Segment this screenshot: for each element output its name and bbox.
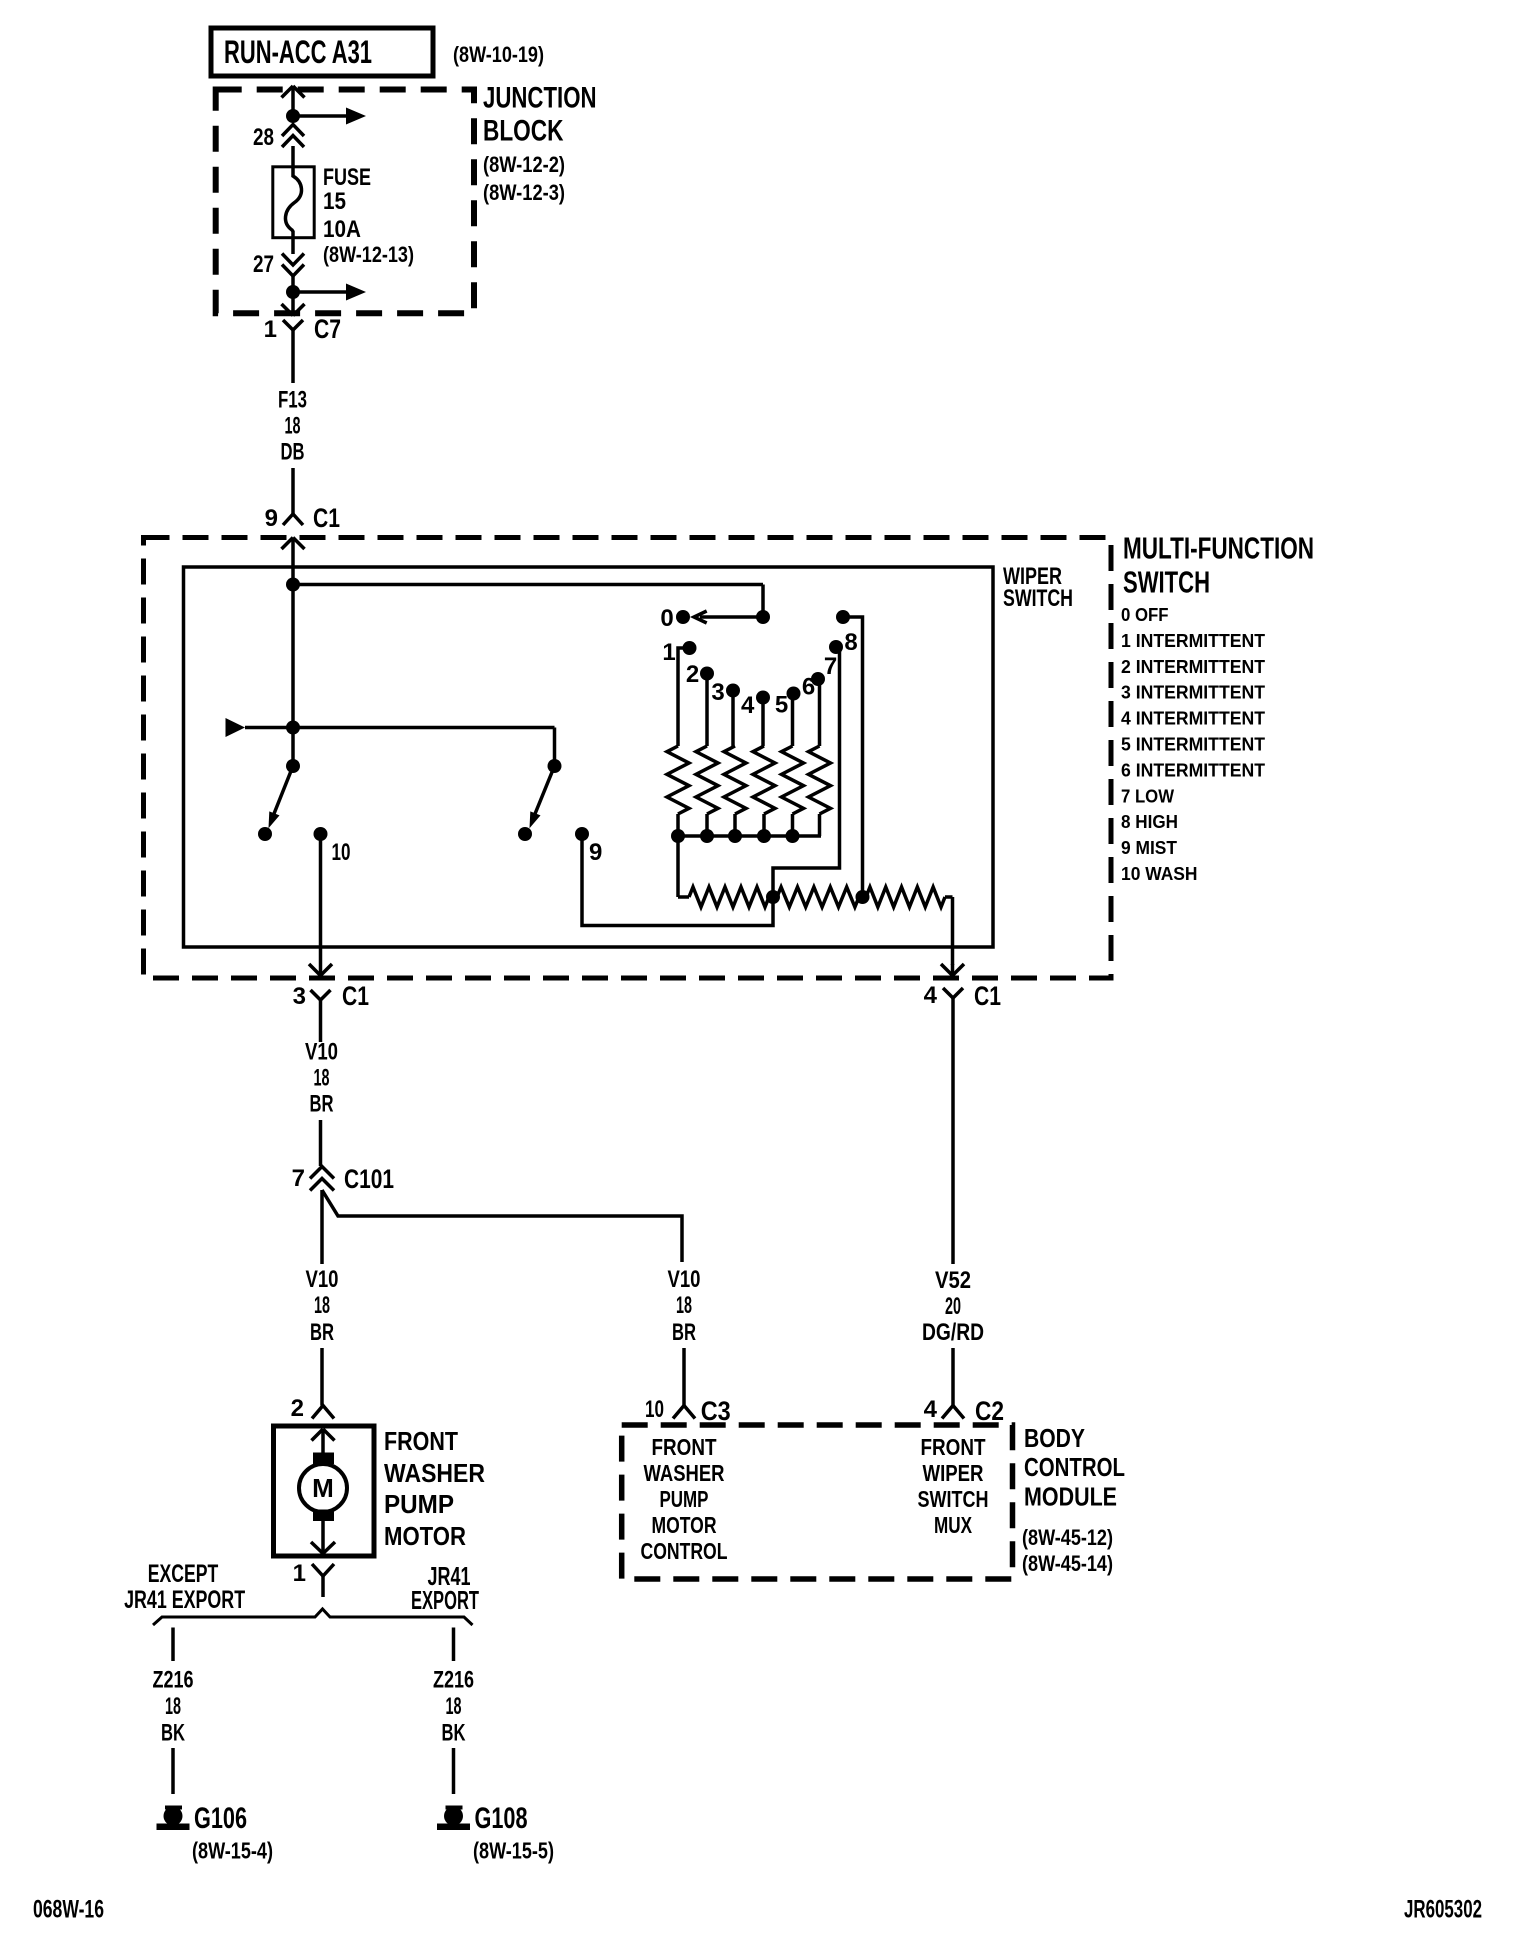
junction block title	[483, 82, 597, 148]
svg-text:(8W-45-14): (8W-45-14)	[1022, 1551, 1113, 1576]
svg-text:10: 10	[332, 839, 351, 866]
contact 8 label	[844, 629, 857, 656]
motor brush top	[313, 1453, 334, 1465]
svg-text:FRONT: FRONT	[384, 1426, 458, 1456]
node dot left wiper pivot	[286, 759, 300, 773]
wire label V52 20 DG/RD	[922, 1267, 984, 1346]
node dot rheostat 1-2	[766, 890, 780, 904]
svg-text:C3: C3	[701, 1396, 731, 1426]
wire contact 1 to resistor 1	[678, 648, 690, 746]
svg-text:G106: G106	[194, 1802, 247, 1835]
node dot wiper feed left	[286, 721, 300, 735]
wire C1-4 down	[951, 1010, 955, 1264]
svg-text:EXCEPT: EXCEPT	[148, 1560, 219, 1588]
svg-text:(8W-15-5): (8W-15-5)	[473, 1838, 554, 1864]
svg-text:5 INTERMITTENT: 5 INTERMITTENT	[1121, 734, 1266, 755]
svg-text:2: 2	[291, 1395, 304, 1422]
connector pass-through 28 (double chevron)	[282, 125, 304, 148]
wire contact 5 to resistor 5	[791, 694, 795, 747]
svg-text:18: 18	[446, 1693, 462, 1720]
connector C101 label	[344, 1164, 394, 1194]
pin 10 label at C3	[645, 1396, 664, 1423]
svg-text:CONTROL: CONTROL	[1024, 1452, 1125, 1482]
pin 7 label at C101	[292, 1165, 305, 1192]
svg-text:SWITCH: SWITCH	[918, 1486, 989, 1512]
svg-text:15: 15	[323, 188, 346, 215]
wire contact 6 to resistor 6	[818, 679, 822, 746]
arrow feed to other circuits (bottom)	[293, 284, 366, 301]
svg-text:10 WASH: 10 WASH	[1121, 863, 1198, 884]
wire left ground drop upper	[171, 1628, 175, 1662]
BCM wiper switch mux label	[918, 1434, 989, 1538]
contact 4 label	[741, 692, 755, 719]
svg-text:BODY: BODY	[1024, 1423, 1085, 1453]
connector C1 pin 9 (fork symbol)	[283, 504, 303, 525]
contact 7 dot	[829, 640, 843, 654]
pin 3 label	[293, 983, 306, 1010]
junction block refs	[483, 152, 565, 205]
svg-text:18: 18	[165, 1693, 181, 1720]
node dot right wiper pivot	[548, 759, 562, 773]
motor internal arrow bottom	[311, 1521, 335, 1554]
node dot at branch over contact 0	[756, 610, 770, 624]
arrow exiting MFS pin 4	[941, 964, 964, 976]
arrow feed to other circuits (top)	[293, 108, 366, 125]
svg-text:DB: DB	[281, 439, 305, 466]
contact 7 label	[824, 653, 837, 680]
connector C1 label (pin3)	[342, 981, 369, 1011]
BCM washer pump control label	[641, 1434, 728, 1564]
svg-text:27: 27	[253, 251, 274, 278]
pin 4 label	[924, 982, 938, 1009]
wash/delay rheostat segment 3 (horizontal resistor)	[863, 887, 953, 907]
junction block dashed box	[216, 90, 474, 314]
wire right ground drop upper	[452, 1628, 456, 1662]
svg-text:20: 20	[945, 1293, 961, 1320]
svg-text:(8W-10-19): (8W-10-19)	[453, 42, 544, 67]
svg-text:RUN-ACC A31: RUN-ACC A31	[224, 34, 372, 70]
wire label Z216 18 BK (left)	[153, 1667, 194, 1747]
wire contact 3 to resistor 3	[731, 691, 735, 747]
svg-text:MULTI-FUNCTION: MULTI-FUNCTION	[1123, 531, 1314, 566]
mist throw contact dot (right arm)	[518, 827, 532, 841]
wire contact 9 to rheostat node	[582, 838, 773, 926]
ground G108 label	[475, 1802, 528, 1835]
ground G108 ref	[473, 1838, 554, 1864]
svg-text:V10: V10	[305, 1039, 338, 1066]
bus junction dots	[671, 829, 800, 843]
wash throw contact dot (left arm)	[258, 827, 272, 841]
svg-text:BR: BR	[310, 1091, 334, 1118]
svg-text:(8W-45-12): (8W-45-12)	[1022, 1525, 1113, 1550]
contact 6 dot	[811, 672, 825, 686]
svg-text:SWITCH: SWITCH	[1123, 565, 1210, 600]
svg-text:28: 28	[253, 124, 274, 151]
multi-function switch dashed box	[144, 538, 1112, 979]
svg-text:PUMP: PUMP	[384, 1489, 454, 1519]
svg-text:7 LOW: 7 LOW	[1121, 785, 1174, 806]
contact 3 dot	[726, 684, 740, 698]
svg-text:C101: C101	[344, 1164, 394, 1194]
fuse F15 body	[273, 167, 314, 238]
pin 9 label at C1	[265, 505, 278, 532]
svg-text:4: 4	[924, 1396, 938, 1423]
svg-text:7: 7	[824, 653, 837, 680]
fuse labels FUSE 15 10A	[323, 164, 371, 243]
wire C101 main down	[320, 1190, 324, 1264]
svg-text:C1: C1	[313, 503, 340, 533]
ground G108 symbol	[437, 1807, 470, 1831]
contact 4 dot	[756, 691, 770, 705]
pin 2 label at motor	[291, 1395, 304, 1422]
svg-text:C1: C1	[342, 981, 369, 1011]
connector C2 label	[975, 1396, 1004, 1426]
svg-text:4: 4	[741, 692, 755, 719]
svg-text:1: 1	[293, 1560, 306, 1587]
body control module dashed box	[622, 1425, 1013, 1579]
wire feed to contact 0 branch	[293, 585, 763, 618]
wire label V10 18 BR (lower left)	[306, 1266, 339, 1346]
svg-text:JR605302: JR605302	[1404, 1896, 1482, 1924]
wire F13 to connector C1	[291, 468, 295, 504]
wire contact 10 to MFS pin 3	[319, 838, 323, 964]
ground G106 ref	[192, 1838, 273, 1864]
svg-text:BK: BK	[442, 1720, 466, 1747]
svg-text:1: 1	[264, 316, 277, 343]
svg-text:8: 8	[844, 629, 857, 656]
connector C1 pin 3 (Y symbol)	[311, 990, 331, 1012]
svg-text:0: 0	[660, 605, 673, 632]
contact 1 label	[662, 639, 675, 666]
svg-text:JUNCTION: JUNCTION	[483, 82, 597, 115]
wire label V10 18 BR (right)	[668, 1266, 701, 1346]
svg-text:V52: V52	[935, 1267, 971, 1294]
svg-text:10: 10	[645, 1396, 664, 1423]
svg-text:4: 4	[924, 982, 938, 1009]
contact 1 dot	[683, 641, 697, 655]
svg-text:MUX: MUX	[934, 1512, 972, 1538]
svg-text:068W-16: 068W-16	[33, 1896, 104, 1924]
wire chevron27 to lower junction dot	[291, 276, 295, 292]
JR41 export label	[411, 1561, 479, 1615]
intermittent delay resistor ladder (6 vertical resistors)	[667, 746, 831, 836]
svg-text:C1: C1	[974, 981, 1001, 1011]
contact 2 dot	[700, 667, 714, 681]
contact 9 label	[589, 839, 602, 866]
svg-text:6: 6	[802, 674, 815, 701]
contact 2 label	[686, 661, 699, 688]
svg-text:DG/RD: DG/RD	[922, 1319, 984, 1346]
svg-text:1 INTERMITTENT: 1 INTERMITTENT	[1121, 630, 1266, 651]
drawing number JR605302	[1404, 1896, 1482, 1924]
MFS title	[1123, 531, 1314, 600]
svg-text:18: 18	[314, 1292, 330, 1319]
node dot on feed inside switch	[286, 578, 300, 592]
connector C1 label (top)	[313, 503, 340, 533]
contact 10 label	[332, 839, 351, 866]
svg-text:WASHER: WASHER	[384, 1458, 485, 1488]
svg-text:FRONT: FRONT	[652, 1434, 717, 1460]
svg-text:V10: V10	[306, 1266, 339, 1293]
svg-text:BK: BK	[161, 1720, 185, 1747]
contact 0 label	[660, 605, 673, 632]
body control module refs	[1022, 1525, 1113, 1576]
svg-text:FRONT: FRONT	[921, 1434, 986, 1460]
svg-text:F13: F13	[278, 387, 307, 414]
svg-text:3: 3	[711, 679, 724, 706]
contact 3 label	[711, 679, 724, 706]
arrow pointing to contact 0	[694, 611, 763, 623]
connector C2 pin 4 fork	[942, 1406, 964, 1419]
wire label Z216 18 BK (right)	[433, 1667, 474, 1747]
front washer pump motor box	[274, 1426, 375, 1556]
left wiper arm (to wash contact)	[269, 766, 294, 828]
svg-text:Z216: Z216	[153, 1667, 194, 1694]
wiper feed horizontal wire	[245, 728, 555, 767]
svg-text:(8W-12-2): (8W-12-2)	[483, 152, 565, 177]
connector C101 pass-through (double chevron)	[310, 1167, 334, 1191]
svg-text:PUMP: PUMP	[660, 1486, 709, 1512]
wire label F13 18 DB	[278, 387, 307, 466]
svg-text:Z216: Z216	[433, 1667, 474, 1694]
arrow exiting junction block down	[282, 292, 305, 316]
svg-text:CONTROL: CONTROL	[641, 1538, 728, 1564]
svg-text:5: 5	[775, 692, 788, 719]
arrow exiting MFS pin 3	[309, 964, 332, 976]
svg-text:C7: C7	[314, 314, 341, 344]
wire fuse to chevron 27	[291, 238, 295, 254]
svg-text:9: 9	[265, 505, 278, 532]
contact 0 dot	[676, 610, 690, 624]
body control module title	[1024, 1423, 1125, 1512]
connector C3 pin 10 fork	[673, 1406, 695, 1419]
contact 5 label	[775, 692, 788, 719]
wire contact 4 to resistor 4	[761, 698, 765, 747]
node lower junction dot	[286, 285, 300, 299]
svg-text:BR: BR	[310, 1319, 334, 1346]
svg-text:4 INTERMITTENT: 4 INTERMITTENT	[1121, 708, 1266, 729]
svg-text:1: 1	[662, 639, 675, 666]
svg-text:9 MIST: 9 MIST	[1121, 837, 1178, 858]
svg-text:G108: G108	[475, 1802, 528, 1835]
wash/delay rheostat segment 1 (horizontal resistor)	[678, 887, 773, 907]
node junction dot below fuse feed	[286, 109, 300, 123]
wire C7 to F13 label	[291, 340, 295, 383]
connector C7 label	[314, 314, 341, 344]
svg-text:BLOCK: BLOCK	[483, 115, 564, 148]
svg-text:MOTOR: MOTOR	[652, 1512, 717, 1538]
wire bus to wash rheostat	[676, 836, 680, 897]
motor brush bottom	[313, 1510, 334, 1522]
svg-text:BR: BR	[672, 1319, 696, 1346]
reference (8W-10-19)	[453, 42, 544, 67]
svg-text:3: 3	[293, 983, 306, 1010]
wire right ground drop lower	[452, 1748, 456, 1794]
contact 5 dot	[787, 687, 801, 701]
connector pin 1 Y below motor	[312, 1564, 334, 1597]
wire to BCM C3	[682, 1348, 686, 1406]
wire to BCM C2	[951, 1348, 955, 1406]
right wiper arm (to mist contact)	[530, 766, 555, 828]
svg-text:(8W-12-13): (8W-12-13)	[323, 242, 414, 267]
wire chevron28 to fuse	[291, 146, 295, 167]
node dot rheostat 2-3	[856, 890, 870, 904]
svg-text:SWITCH: SWITCH	[1003, 585, 1073, 612]
wire contact 8 to rheostat node	[843, 617, 863, 897]
svg-text:WIPER: WIPER	[923, 1460, 984, 1486]
svg-text:WASHER: WASHER	[644, 1460, 725, 1486]
wire C1-3 down	[319, 1012, 323, 1042]
power feed box RUN-ACC A31	[211, 28, 433, 76]
connector pass-through 27 (double chevron)	[282, 254, 304, 277]
svg-text:EXPORT: EXPORT	[411, 1585, 479, 1615]
svg-text:2 INTERMITTENT: 2 INTERMITTENT	[1121, 656, 1266, 677]
pin 4 label at C2	[924, 1396, 938, 1423]
wire rheostat output to MFS pin 4	[951, 897, 955, 965]
svg-text:V10: V10	[668, 1266, 701, 1293]
wire from junction block to RUN-ACC A31 with up arrow	[282, 86, 305, 116]
svg-text:C2: C2	[975, 1396, 1004, 1426]
pin 27 label	[253, 251, 274, 278]
motor M circle	[299, 1464, 347, 1512]
svg-text:8 HIGH: 8 HIGH	[1121, 811, 1178, 832]
pin 1 label at C7	[264, 316, 277, 343]
contact 9 dot	[575, 827, 589, 841]
except JR41 export label	[124, 1560, 245, 1614]
connector pin 2 fork at motor	[312, 1406, 334, 1419]
svg-text:10A: 10A	[323, 216, 361, 243]
motor internal arrow top	[312, 1429, 335, 1453]
svg-text:18: 18	[314, 1065, 330, 1092]
svg-text:18: 18	[285, 413, 301, 440]
wash/delay rheostat segment 2 (horizontal resistor)	[773, 887, 863, 907]
svg-text:M: M	[312, 1473, 334, 1503]
svg-text:(8W-12-3): (8W-12-3)	[483, 180, 565, 205]
wire to washer pump motor	[320, 1348, 324, 1406]
wiper arm common wire	[291, 585, 295, 766]
svg-text:(8W-15-4): (8W-15-4)	[192, 1838, 273, 1864]
svg-text:18: 18	[676, 1292, 692, 1319]
wire label V10 18 BR (upper)	[305, 1039, 338, 1118]
svg-text:7: 7	[292, 1165, 305, 1192]
ground G106 symbol	[157, 1807, 190, 1831]
wire C101 branch to washer pump control	[322, 1190, 682, 1262]
svg-text:JR41 EXPORT: JR41 EXPORT	[124, 1586, 245, 1614]
connector C1 pin 4 (Y symbol)	[943, 988, 963, 1010]
resistor ladder bottom bus	[678, 834, 821, 838]
connector C3 label	[701, 1396, 731, 1426]
contact 6 label	[802, 674, 815, 701]
sheet number 068W-16	[33, 1896, 104, 1924]
front washer pump motor label	[384, 1426, 485, 1551]
pin 28 label	[253, 124, 274, 151]
svg-text:6 INTERMITTENT: 6 INTERMITTENT	[1121, 759, 1266, 780]
svg-text:3 INTERMITTENT: 3 INTERMITTENT	[1121, 682, 1266, 703]
connector C1 label (pin4)	[974, 981, 1001, 1011]
fuse ref (8W-12-13)	[323, 242, 414, 267]
wire contact 2 to resistor 2	[705, 674, 709, 747]
svg-text:MODULE: MODULE	[1024, 1482, 1117, 1512]
svg-text:FUSE: FUSE	[323, 164, 371, 191]
wire contact 7 to rheostat node	[773, 647, 840, 897]
ground G106 label	[194, 1802, 247, 1835]
contact 8 dot	[836, 610, 850, 624]
svg-text:9: 9	[589, 839, 602, 866]
wiper switch label	[1003, 563, 1073, 612]
pin 1 label below motor	[293, 1560, 306, 1587]
alternate wiring brace	[153, 1609, 473, 1625]
svg-text:MOTOR: MOTOR	[384, 1521, 466, 1551]
contact 10 dot	[314, 827, 328, 841]
wire to C101	[319, 1120, 323, 1166]
wiper switch inner box	[184, 567, 994, 947]
MFS position legend list	[1121, 604, 1266, 884]
connector C7 pin 1 (Y symbol)	[283, 320, 303, 340]
svg-text:0 OFF: 0 OFF	[1121, 604, 1169, 625]
wire left ground drop lower	[171, 1748, 175, 1794]
wiper feed triangle	[226, 718, 246, 737]
svg-text:2: 2	[686, 661, 699, 688]
arrow entering MFS at pin 9	[282, 538, 305, 586]
